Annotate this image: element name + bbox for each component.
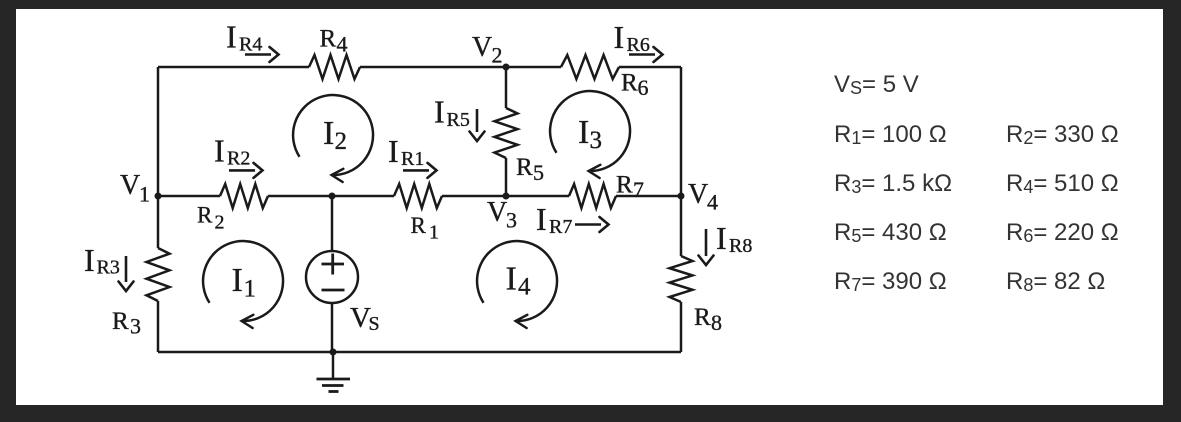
label R5 <box>516 154 544 185</box>
svg-text:R6= 220 Ω: R6= 220 Ω <box>1006 219 1119 246</box>
node V1 <box>155 193 162 200</box>
current arrow IR6 <box>629 47 663 62</box>
wire R5 to V3 <box>505 158 508 196</box>
current arrow IR3 <box>119 256 134 291</box>
svg-text:1: 1 <box>244 276 257 303</box>
svg-text:I: I <box>84 242 95 278</box>
svg-text:8: 8 <box>711 310 722 335</box>
node V4 <box>678 193 685 200</box>
wire middle rail V1-R2 <box>158 195 220 198</box>
current arrow IR8 <box>699 229 714 265</box>
resistor R4 <box>309 55 360 79</box>
label R7 <box>616 172 644 203</box>
mesh current loop I3 <box>550 91 630 178</box>
label IR8 <box>716 220 752 257</box>
svg-text:R2: R2 <box>227 148 250 170</box>
svg-text:R: R <box>621 70 638 97</box>
wire VS source to bottom rail <box>331 303 334 352</box>
svg-text:R: R <box>616 172 633 199</box>
label R1 <box>411 213 440 244</box>
label R2 <box>197 203 225 234</box>
svg-text:1: 1 <box>429 222 439 244</box>
svg-text:R5= 430 Ω: R5= 430 Ω <box>834 219 947 246</box>
node V2 <box>503 64 510 71</box>
label R4 <box>320 26 348 57</box>
svg-text:2: 2 <box>492 43 503 68</box>
label node V3 <box>487 197 517 233</box>
svg-text:I: I <box>323 115 334 152</box>
label IR4 <box>226 19 262 56</box>
label IR5 <box>434 94 470 132</box>
svg-text:3: 3 <box>130 314 141 339</box>
svg-text:R8: R8 <box>729 235 752 257</box>
svg-text:VS= 5 V: VS= 5 V <box>834 71 919 98</box>
svg-text:R7: R7 <box>549 216 572 238</box>
svg-text:I: I <box>716 220 727 256</box>
svg-text:R: R <box>320 26 337 53</box>
label IR3 <box>84 242 120 279</box>
svg-text:R: R <box>516 154 533 181</box>
wire middle rail R2-R1 <box>268 195 394 198</box>
resistor R6 <box>561 55 619 79</box>
resistor R8 <box>670 256 693 302</box>
svg-text:I: I <box>614 19 625 55</box>
current arrow IR2 <box>229 163 263 178</box>
svg-text:V: V <box>688 179 708 210</box>
label IR6 <box>614 19 650 56</box>
svg-text:R2= 330 Ω: R2= 330 Ω <box>1006 121 1119 148</box>
resistor R1 <box>394 184 442 208</box>
svg-text:4: 4 <box>337 32 348 57</box>
current arrow IR1 <box>403 163 437 178</box>
svg-text:4: 4 <box>518 274 531 301</box>
svg-text:I: I <box>536 201 547 237</box>
current arrow IR7 <box>575 217 609 232</box>
svg-text:I: I <box>388 133 399 169</box>
wire middle rail R1-R7 <box>442 195 569 198</box>
svg-text:I: I <box>214 133 225 169</box>
svg-text:5: 5 <box>533 160 544 185</box>
label node V4 <box>688 179 718 215</box>
resistor R2 <box>220 184 268 208</box>
svg-text:6: 6 <box>638 75 649 100</box>
svg-text:R8= 82 Ω: R8= 82 Ω <box>1006 268 1105 295</box>
label R3 <box>112 308 141 339</box>
resistor R5 <box>495 108 518 158</box>
wire top rail left segment <box>158 66 309 69</box>
svg-text:R: R <box>112 308 129 335</box>
node V3 <box>503 193 510 200</box>
label mesh current I1 <box>232 262 257 303</box>
svg-text:I: I <box>434 94 445 130</box>
wire V2 to R5 <box>505 67 508 108</box>
svg-text:S: S <box>369 313 380 335</box>
svg-text:2: 2 <box>215 212 225 234</box>
wire left vertical upper <box>157 67 160 248</box>
mesh current loop I2 <box>293 95 373 182</box>
svg-text:7: 7 <box>633 177 644 202</box>
svg-text:1: 1 <box>139 182 150 207</box>
wire node to VS source <box>331 196 334 251</box>
svg-text:R: R <box>411 213 427 238</box>
svg-text:R6: R6 <box>627 34 650 56</box>
current arrow IR4 <box>245 47 279 62</box>
node bottom at ground <box>330 349 337 356</box>
svg-text:R7= 390 Ω: R7= 390 Ω <box>834 268 947 295</box>
wire left vertical lower <box>157 301 160 352</box>
label R6 <box>621 70 649 101</box>
svg-text:R4: R4 <box>239 34 262 56</box>
wire middle rail R7-V4 <box>616 195 681 198</box>
svg-text:I: I <box>506 261 517 298</box>
svg-text:R4= 510 Ω: R4= 510 Ω <box>1006 170 1119 197</box>
label mesh current I4 <box>506 261 532 301</box>
wire right vertical lower <box>680 302 683 352</box>
label node V2 <box>472 32 503 68</box>
svg-text:4: 4 <box>707 190 718 215</box>
svg-text:V: V <box>120 170 140 201</box>
svg-text:I: I <box>232 262 243 299</box>
svg-text:R1= 100 Ω: R1= 100 Ω <box>834 121 947 148</box>
mesh current loop I4 <box>477 241 557 328</box>
svg-text:R: R <box>197 203 213 228</box>
svg-text:R5: R5 <box>447 109 470 131</box>
node center at VS <box>329 193 336 200</box>
svg-text:R: R <box>694 304 711 331</box>
label source VS <box>350 302 380 335</box>
svg-text:I: I <box>226 19 237 55</box>
label IR7 <box>536 201 572 238</box>
wire top rail middle segment <box>360 66 561 69</box>
wire bottom rail <box>158 351 681 354</box>
resistor R7 <box>569 184 616 208</box>
svg-text:2: 2 <box>335 128 348 155</box>
svg-text:R3: R3 <box>97 257 120 279</box>
label mesh current I3 <box>578 114 602 154</box>
svg-text:I: I <box>578 114 589 151</box>
ground <box>317 352 351 392</box>
resistor R3 <box>147 248 170 301</box>
wire top rail right segment <box>619 66 681 69</box>
label node V1 <box>120 170 150 207</box>
svg-text:R1: R1 <box>401 148 424 170</box>
mesh current loop I1 <box>203 241 283 328</box>
label R8 <box>694 304 722 335</box>
svg-text:3: 3 <box>590 127 603 154</box>
voltage source VS <box>306 251 358 303</box>
svg-text:3: 3 <box>506 208 517 233</box>
label IR1 <box>388 133 424 170</box>
current arrow IR5 <box>470 109 485 141</box>
label mesh current I2 <box>323 115 347 155</box>
label IR2 <box>214 133 250 170</box>
svg-text:V: V <box>472 32 492 63</box>
svg-text:V: V <box>487 197 507 228</box>
wire right vertical upper <box>680 67 683 256</box>
